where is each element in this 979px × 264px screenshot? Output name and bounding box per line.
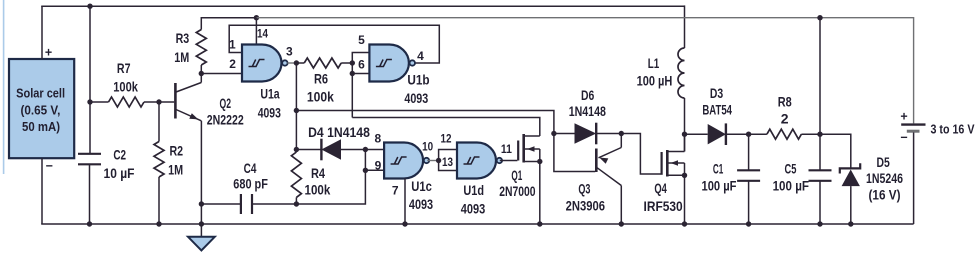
svg-text:2N2222: 2N2222: [207, 112, 244, 128]
svg-text:1M: 1M: [168, 162, 183, 178]
battery 3 to 16 V: [901, 125, 925, 224]
resistor R2 1M: [154, 102, 164, 224]
wire Q2 emitter to ground rail: [200, 121, 202, 224]
svg-text:4: 4: [417, 49, 424, 63]
svg-text:R7: R7: [117, 60, 131, 76]
svg-text:U1c: U1c: [411, 178, 432, 194]
wire top rail: [41, 5, 684, 7]
node C4 left junction: [199, 201, 204, 206]
inductor L1 100 uH: [678, 48, 685, 98]
diode D4 1N4148: [296, 139, 365, 161]
node ground rail Q4 source junction: [682, 221, 687, 226]
svg-text:Solar cell: Solar cell: [16, 86, 65, 101]
svg-text:R2: R2: [170, 143, 184, 159]
wire U1a output down to D4/R4 node: [295, 63, 297, 150]
svg-text:4093: 4093: [409, 196, 433, 212]
wire C4 node to U1c pins 8/9: [296, 170, 365, 204]
svg-text:−: −: [46, 159, 53, 173]
node U1a output junction: [294, 60, 299, 65]
node ground rail Q1 source junction: [537, 221, 542, 226]
node U1c output / U1d input junction: [436, 158, 441, 163]
node L1 / Q4 drain / D3 anode junction: [682, 132, 687, 137]
capacitor C1 100 uF: [737, 134, 760, 224]
svg-text:1N5246: 1N5246: [866, 170, 903, 186]
node D3 cathode / C1 junction: [746, 132, 751, 137]
svg-text:7: 7: [392, 184, 399, 198]
svg-text:Q4: Q4: [654, 180, 667, 196]
resistor R4 100k: [291, 152, 301, 204]
ground: [188, 224, 215, 251]
wire solar cell + to top rail: [41, 6, 43, 59]
diode D5 1N5246 zener: [840, 163, 860, 224]
node U1b input / R6 junction: [350, 60, 355, 65]
svg-text:100k: 100k: [305, 182, 331, 198]
wire ground rail: [41, 223, 913, 225]
wire U1b pins 5/6 tie bar: [352, 53, 369, 118]
wire U1d output to Q1 gate: [500, 160, 518, 162]
svg-text:D5: D5: [877, 154, 890, 170]
svg-text:R3: R3: [176, 30, 190, 46]
svg-text:Q2: Q2: [220, 95, 232, 111]
svg-text:−: −: [900, 130, 907, 144]
capacitor C4 680 pF: [201, 194, 296, 214]
transistor Q2 2N2222 NPN: [159, 74, 201, 121]
node ground rail C1 junction: [746, 221, 751, 226]
svg-text:2: 2: [781, 111, 789, 127]
node ground rail C2 junction: [87, 221, 92, 226]
node C4 / R4 bottom junction: [294, 201, 299, 206]
svg-text:1M: 1M: [174, 49, 189, 65]
diode D3 BAT54: [685, 123, 749, 145]
svg-text:9: 9: [375, 159, 382, 173]
node ground rail U1c pin7 junction: [402, 221, 407, 226]
node U1c pin9 junction: [363, 168, 368, 173]
svg-text:4093: 4093: [258, 104, 281, 120]
svg-text:10 µF: 10 µF: [104, 165, 135, 181]
wire U1a output net to D6 anode: [296, 111, 554, 134]
svg-text:C5: C5: [785, 160, 797, 176]
capacitor C2 10 uF: [78, 154, 101, 224]
node R8 / C5 / VDD junction: [817, 132, 822, 137]
wire D6 cathode node to Q4 gate: [621, 134, 660, 175]
wire VDD segment R3 to pin14 (dark): [201, 18, 256, 30]
svg-text:8: 8: [374, 132, 381, 146]
transistor Q1 2N7000 MOSFET: [518, 134, 540, 224]
node VDD / C5 branch junction: [817, 15, 822, 20]
svg-text:U1a: U1a: [260, 86, 279, 102]
svg-text:4093: 4093: [461, 200, 486, 216]
node R7 right / Q2 base junction: [156, 99, 161, 104]
node ground rail Q3 collector junction: [619, 221, 624, 226]
svg-text:3: 3: [286, 45, 293, 59]
svg-text:100k: 100k: [307, 88, 334, 104]
node ground rail R2 junction: [156, 221, 161, 226]
resistor R6 100k: [296, 58, 352, 68]
capacitor C5 100 uF: [809, 134, 832, 224]
solar cell (0.65 V, 50 mA): [9, 46, 74, 174]
svg-text:12: 12: [441, 131, 452, 145]
node D6 anode junction: [551, 131, 556, 136]
svg-text:13: 13: [442, 155, 453, 169]
logic gate U1a 4093 NAND: [242, 45, 282, 82]
svg-text:BAT54: BAT54: [702, 101, 732, 117]
svg-text:2: 2: [229, 57, 236, 71]
svg-text:L1: L1: [648, 55, 660, 71]
svg-text:D4 1N4148: D4 1N4148: [308, 124, 370, 140]
svg-text:D6: D6: [581, 87, 594, 103]
svg-text:+: +: [45, 46, 52, 60]
node D4 cathode / R4 top junction: [294, 147, 299, 152]
svg-text:50 mA): 50 mA): [22, 119, 60, 134]
svg-text:5: 5: [358, 33, 365, 47]
svg-text:14: 14: [257, 27, 268, 41]
svg-text:680 pF: 680 pF: [233, 176, 268, 192]
node ground rail D5 junction: [848, 221, 853, 226]
wire U1a output stub: [287, 62, 296, 64]
svg-text:C1: C1: [713, 161, 724, 177]
svg-text:IRF530: IRF530: [644, 198, 683, 214]
svg-text:(16 V): (16 V): [869, 187, 901, 203]
node U1b pin6 junction: [350, 71, 355, 76]
wire VDD net pin14 to battery (grey): [256, 18, 913, 124]
logic gate U1b 4093 NAND: [369, 45, 409, 82]
diode D6 1N4148: [554, 123, 621, 145]
wire C2/R7 branch vertical: [89, 6, 91, 154]
node Q4 source junction: [682, 173, 687, 178]
node R3 / Q2 collector / U1a pin2 junction: [199, 71, 204, 76]
wire U1c pin7 to ground rail: [404, 179, 406, 225]
wire Q1 drain to U1b input net: [352, 118, 540, 137]
wire U1a pin2 input: [201, 73, 242, 75]
svg-text:+: +: [900, 109, 907, 123]
svg-text:D3: D3: [710, 85, 723, 101]
wire L1 bottom to Q4 drain: [684, 98, 686, 152]
node ground rail C5 junction: [817, 221, 822, 226]
resistor R8 2: [749, 129, 820, 139]
logic gate U1c 4093 NAND: [384, 143, 423, 179]
svg-text:100 µH: 100 µH: [637, 72, 673, 88]
svg-text:2N3906: 2N3906: [566, 197, 606, 213]
svg-text:R6: R6: [314, 70, 328, 86]
wire U1c pin8/pin9 tie bar: [365, 150, 384, 171]
node U1a output / y110 branch junction: [294, 108, 299, 113]
logic gate U1d 4093 NAND: [457, 143, 496, 179]
svg-text:1N4148: 1N4148: [569, 103, 606, 119]
wire D6 anode net down to Q3 base: [554, 134, 595, 172]
svg-text:2N7000: 2N7000: [499, 183, 535, 199]
wire U1a pin1 to U1b pin4 feedback loop: [229, 25, 439, 63]
node pin 14 VDD junction: [254, 15, 259, 20]
svg-text:C2: C2: [113, 147, 126, 163]
svg-text:Q3: Q3: [578, 181, 590, 197]
wire solar cell - to ground rail: [41, 158, 43, 224]
transistor Q3 2N3906 PNP: [596, 134, 621, 225]
svg-text:10: 10: [422, 140, 433, 154]
node ground rail Q2 emitter junction: [199, 221, 204, 226]
resistor R3 1M: [196, 30, 206, 74]
node junction top rail / C2 branch: [87, 3, 92, 8]
transistor Q4 IRF530 MOSFET: [662, 133, 685, 224]
wire U1d pins 12/13 tie bar: [439, 150, 457, 171]
svg-text:11: 11: [501, 142, 512, 156]
wire VDD to C5/R8 node: [819, 18, 821, 133]
svg-text:100 µF: 100 µF: [702, 178, 737, 194]
node Q1 source junction: [537, 159, 542, 164]
svg-text:R8: R8: [778, 93, 792, 109]
node R7 left junction: [87, 99, 92, 104]
wire C5 node to D5: [820, 134, 851, 168]
wire U1c output stub: [427, 160, 438, 162]
svg-text:1: 1: [229, 38, 236, 52]
node D6 cathode / Q3 emitter / Q4 gate junction: [619, 131, 624, 136]
svg-text:6: 6: [358, 57, 365, 71]
svg-text:U1d: U1d: [463, 182, 484, 198]
node U1c pin8 / D4 anode junction: [363, 147, 368, 152]
svg-text:Q1: Q1: [511, 167, 522, 183]
svg-text:100 µF: 100 µF: [773, 178, 810, 194]
svg-text:100k: 100k: [113, 78, 138, 94]
svg-text:C4: C4: [244, 160, 257, 176]
wire U1a pin14 to VDD: [255, 18, 257, 45]
svg-text:R4: R4: [311, 165, 325, 181]
svg-text:U1b: U1b: [407, 71, 429, 87]
wire L1 top feed: [684, 5, 686, 48]
svg-text:4093: 4093: [404, 90, 428, 106]
svg-text:(0.65 V,: (0.65 V,: [20, 102, 60, 117]
resistor R7 100k: [90, 97, 159, 107]
svg-text:3 to 16 V: 3 to 16 V: [931, 122, 975, 137]
